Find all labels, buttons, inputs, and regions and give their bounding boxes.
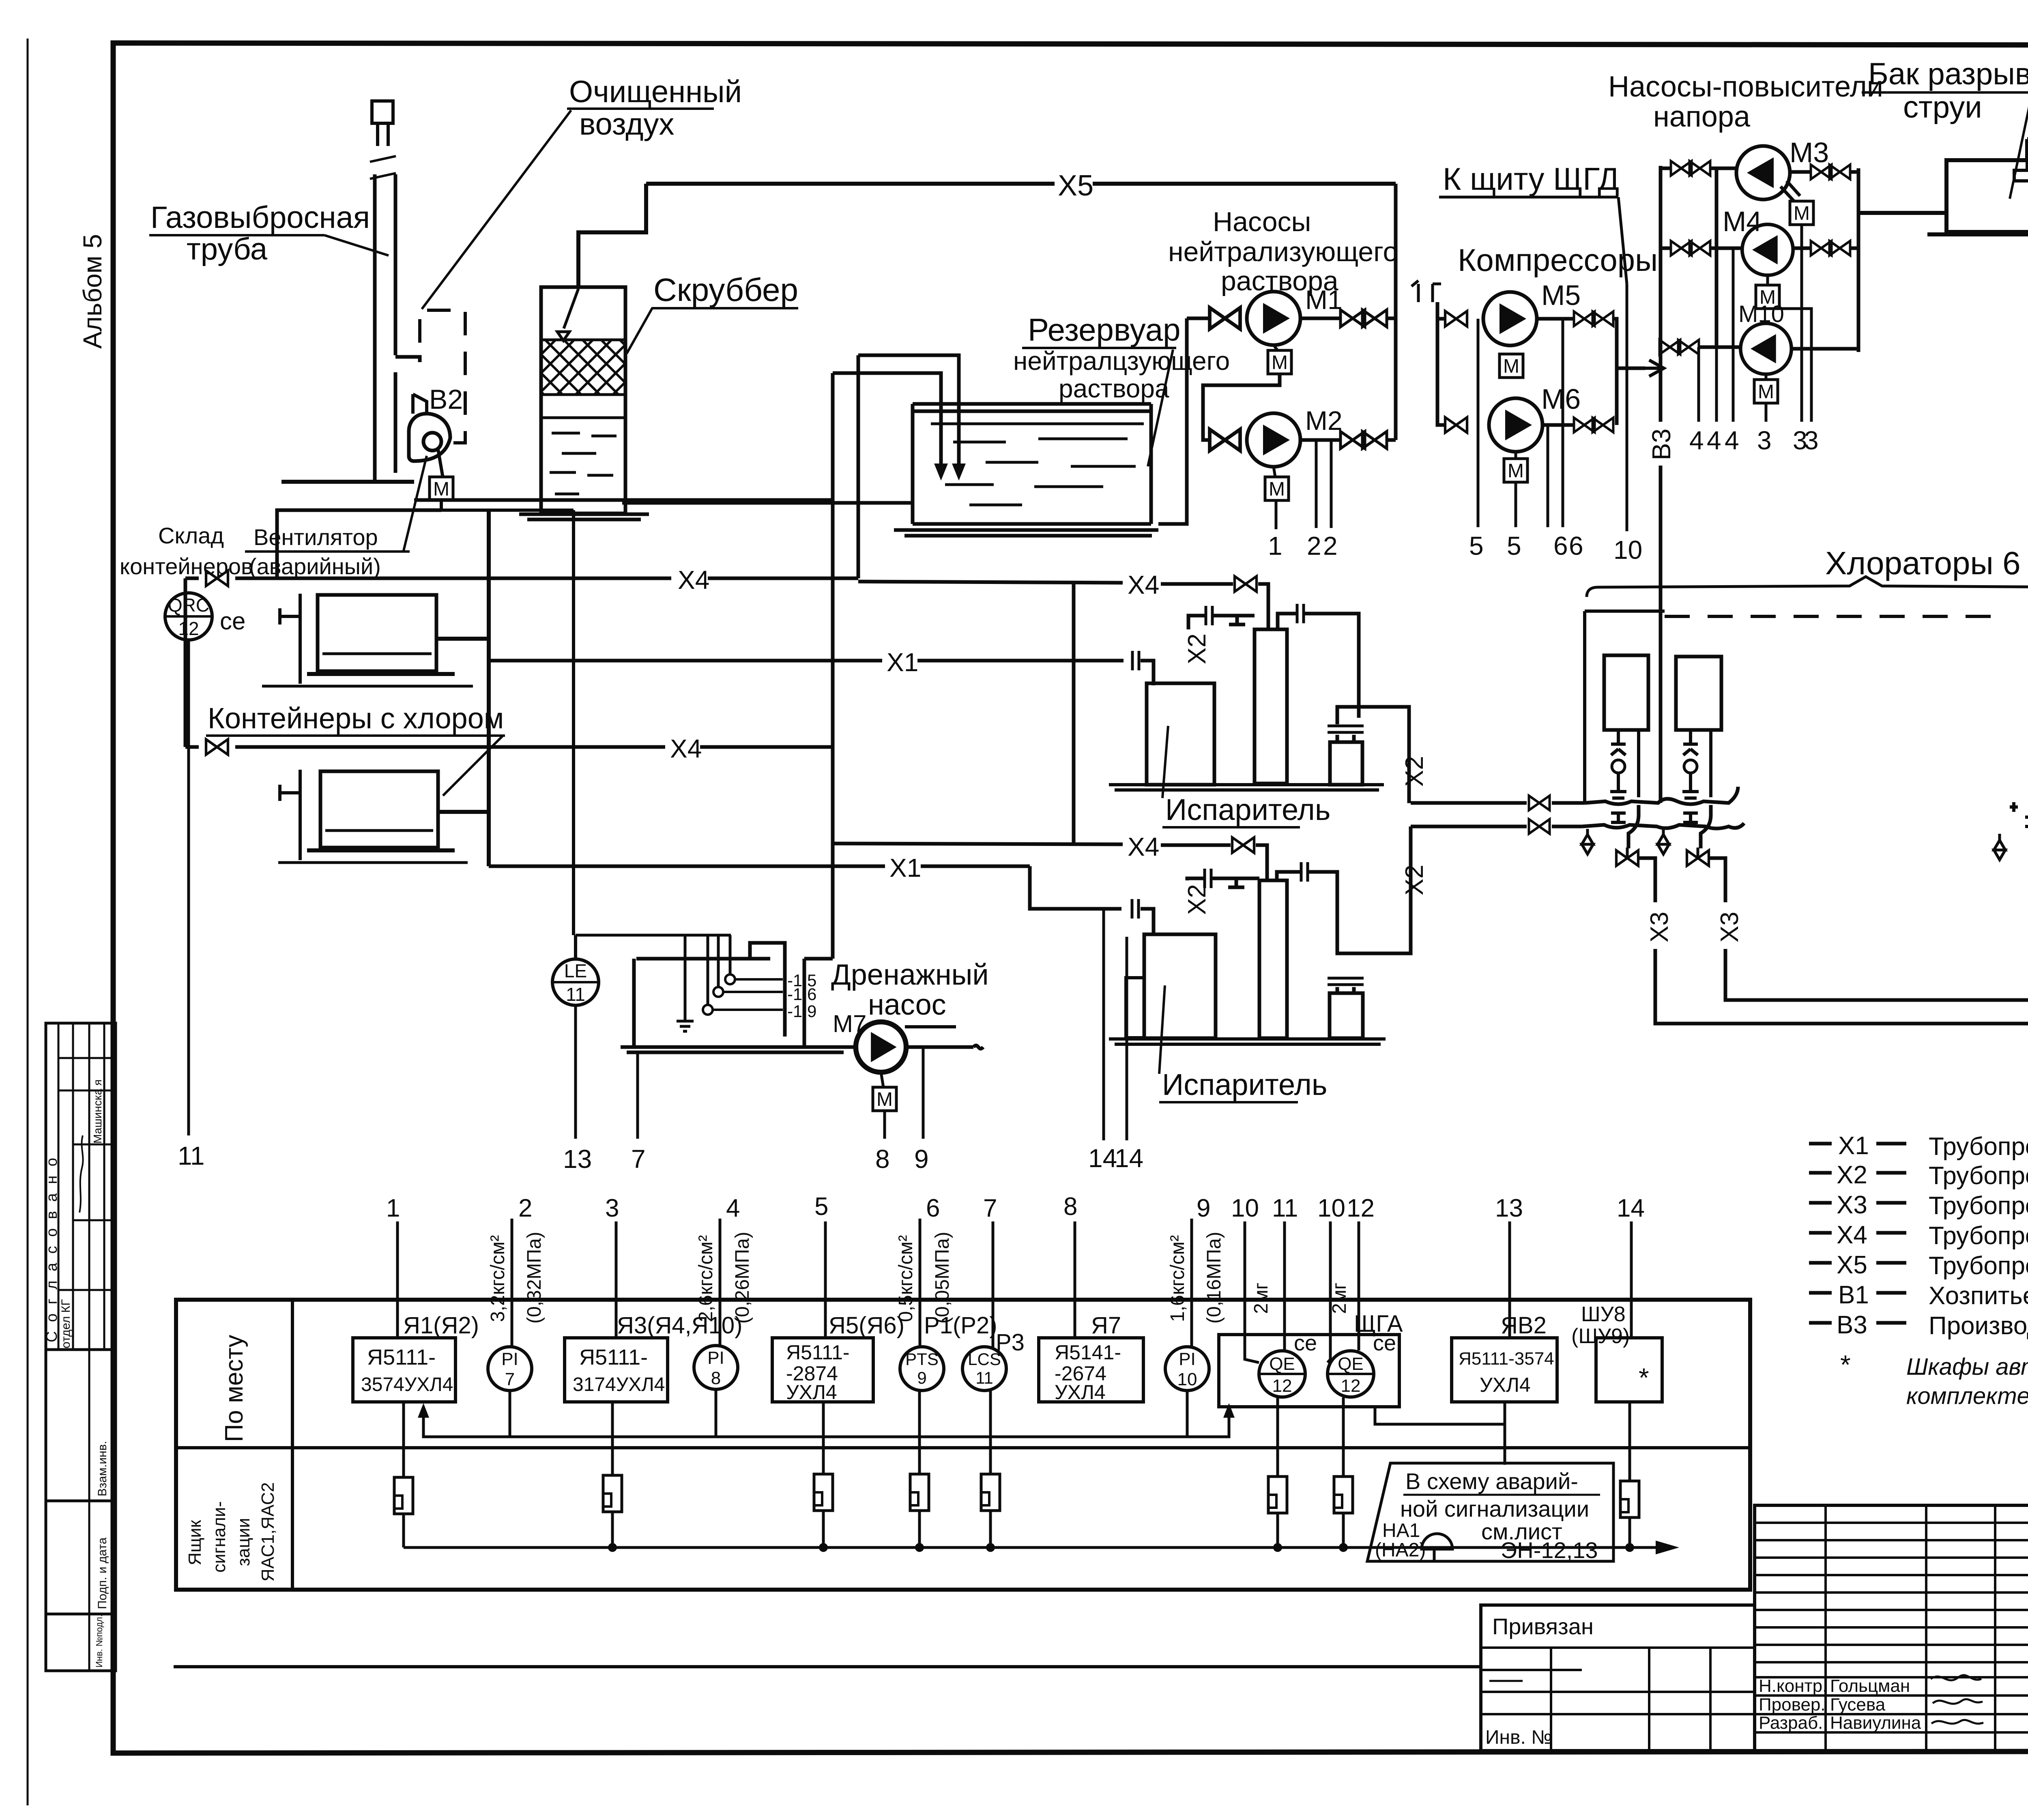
svg-text:М5: М5 xyxy=(1541,279,1581,311)
svg-text:2мг: 2мг xyxy=(1250,1283,1272,1314)
pipe X2 riser 2 xyxy=(1406,826,1411,953)
svg-text:Инв. №: Инв. № xyxy=(1485,1727,1552,1748)
pipe sump to pump M7 xyxy=(804,1045,856,1049)
pump M3 xyxy=(1736,146,1790,200)
svg-text:Х5: Х5 xyxy=(1837,1251,1867,1279)
label: scrubber xyxy=(627,272,798,354)
pipe B3 production water line xyxy=(1647,166,1676,803)
label: containers with chlorine xyxy=(206,702,505,796)
svg-text:труба: труба xyxy=(187,232,268,266)
privyazan box xyxy=(1481,1605,1755,1751)
svg-text:10: 10 xyxy=(1317,1194,1345,1222)
cabinet box ShU8 xyxy=(1596,1338,1662,1402)
evaporator 2 column xyxy=(1259,880,1287,1038)
wire M2 motor to 1 xyxy=(1275,500,1278,529)
label: booster pumps xyxy=(1608,71,1883,133)
svg-text:Провер.: Провер. xyxy=(1759,1695,1826,1715)
pipe into evap2 column xyxy=(1256,845,1267,880)
section line under strip xyxy=(174,1665,1481,1668)
analyser QE12 second xyxy=(1328,1351,1374,1397)
svg-text:8: 8 xyxy=(1063,1193,1077,1221)
pipe container 1 outlet xyxy=(436,637,489,641)
legend xyxy=(1809,1132,2028,1340)
sheet edge line xyxy=(27,39,29,1805)
svg-text:комплекте с испарителями.: комплекте с испарителями. xyxy=(1906,1383,2028,1409)
ground under container 2 xyxy=(278,861,468,864)
wire M10 motor to 3 xyxy=(1765,403,1768,422)
vent valve 2 xyxy=(1658,829,1669,854)
svg-text:Разраб.: Разраб. xyxy=(1759,1713,1823,1733)
pipe scrubber inlet from X5 xyxy=(578,184,646,287)
pipe X1 upper into evaporator xyxy=(1141,661,1154,685)
motor M4 xyxy=(1756,285,1779,309)
svg-text:Машинска я: Машинска я xyxy=(91,1080,104,1144)
container 2 base xyxy=(307,848,455,852)
svg-text:12: 12 xyxy=(1272,1376,1292,1396)
pipe X4 drop to sump xyxy=(831,747,835,959)
wires gauges to feedback xyxy=(510,1389,1187,1437)
wire drop 12 xyxy=(1358,1221,1360,1350)
svg-text:2,6кгс/см²: 2,6кгс/см² xyxy=(695,1235,717,1322)
svg-text:LE: LE xyxy=(564,960,587,981)
pipe M6 discharge xyxy=(1542,423,1574,427)
pipe evap1 gas top xyxy=(1188,616,1255,629)
wire relay2 to bus xyxy=(611,1512,614,1547)
svg-text:М2: М2 xyxy=(1305,406,1343,436)
valve X4 evap2 xyxy=(1232,837,1254,853)
chlorinator 1 internals xyxy=(1610,730,1639,798)
pipe M5 discharge xyxy=(1537,317,1574,321)
svg-text:нейтралцзующего: нейтралцзующего xyxy=(1013,346,1230,376)
svg-text:Х1: Х1 xyxy=(1838,1132,1869,1160)
valve M5 suction xyxy=(1445,311,1467,326)
valves M5 discharge xyxy=(1574,311,1613,326)
svg-text:1,6кгс/см²: 1,6кгс/см² xyxy=(1167,1235,1188,1322)
wire drop 1 xyxy=(396,1221,399,1338)
svg-text:11: 11 xyxy=(975,1368,993,1387)
tank bak razryva strui xyxy=(1946,160,2028,232)
left margin stamp bottom xyxy=(46,1614,116,1671)
alarm bell symbol xyxy=(1422,1534,1452,1561)
pump M10 xyxy=(1740,323,1791,374)
stem M10 motor xyxy=(1765,374,1768,380)
chlorine container 2 xyxy=(320,771,438,848)
fan motor M xyxy=(430,477,453,500)
unions small vessel 2 xyxy=(1328,978,1347,985)
pump M2 xyxy=(1247,413,1300,467)
wire SHCHGD to 10 xyxy=(1626,284,1628,531)
svg-text:Х4: Х4 xyxy=(670,734,702,763)
svg-text:2: 2 xyxy=(1323,531,1338,560)
svg-text:(0,32МПа): (0,32МПа) xyxy=(524,1232,545,1324)
svg-text:Хозпитьевой водопровод: Хозпитьевой водопровод xyxy=(1929,1282,2028,1310)
svg-text:4: 4 xyxy=(726,1194,740,1222)
svg-text:1: 1 xyxy=(386,1194,400,1222)
svg-text:УХЛ4: УХЛ4 xyxy=(1480,1374,1531,1396)
wire M1 motor to M2 suction xyxy=(1203,374,1280,440)
valve M2 suction xyxy=(1210,429,1240,451)
wire drop 11 xyxy=(1283,1221,1286,1350)
wire LCS11 to relay xyxy=(989,1391,992,1474)
evaporator 2 annex xyxy=(1126,978,1144,1038)
svg-text:Альбом 5: Альбом 5 xyxy=(78,234,107,349)
relay 2 xyxy=(603,1475,622,1512)
pipe M1 suction from tank xyxy=(1158,318,1208,524)
svg-text:Насосы: Насосы xyxy=(1213,206,1311,237)
stem M6 motor xyxy=(1515,452,1517,459)
drainage sump walls xyxy=(634,943,833,1046)
svg-text:Р1(Р2): Р1(Р2) xyxy=(924,1312,997,1339)
svg-text:14: 14 xyxy=(1088,1144,1117,1173)
valve feed 1 xyxy=(1529,796,1550,810)
svg-text:воздух: воздух xyxy=(579,107,674,142)
pipe M1 discharge xyxy=(1300,317,1342,320)
svg-text:Навиулина: Навиулина xyxy=(1830,1713,1921,1733)
wire drop 9 with pressure xyxy=(1167,1194,1225,1347)
labels 3 3 3 xyxy=(1757,426,1819,455)
svg-text:зации: зации xyxy=(234,1518,253,1566)
pipe discharge header M1 M2 xyxy=(1394,184,1398,440)
signal bus xyxy=(404,1541,1679,1554)
wire sump switch to 7 xyxy=(636,1053,639,1139)
valve M6 suction xyxy=(1445,417,1467,433)
reservoir tank xyxy=(913,404,1151,524)
svg-text:контейнеров: контейнеров xyxy=(120,554,253,579)
svg-text:Подп. и дата: Подп. и дата xyxy=(96,1537,109,1609)
diagonal drop chlorinator 1 xyxy=(1628,805,1639,848)
svg-text:11: 11 xyxy=(178,1141,204,1170)
svg-text:напора: напора xyxy=(1653,101,1751,133)
wire PTS9 to relay xyxy=(918,1391,921,1474)
svg-text:НА1: НА1 xyxy=(1382,1520,1420,1541)
svg-text:УХЛ4: УХЛ4 xyxy=(1055,1381,1106,1404)
left margin stamp middle xyxy=(46,1350,116,1501)
scrubber base ground xyxy=(519,514,649,519)
svg-text:Х4: Х4 xyxy=(1128,570,1159,599)
svg-text:М4: М4 xyxy=(1723,206,1762,237)
label: evaporator 1 xyxy=(1162,726,1330,827)
analyser QE12 first xyxy=(1259,1351,1305,1397)
brace chlorinators xyxy=(1587,577,2028,597)
svg-text:13: 13 xyxy=(1495,1194,1523,1222)
pipe X4 feed evaporator 1 xyxy=(858,570,1233,599)
label: to panel SHCHGD xyxy=(1439,161,1627,284)
svg-text:Трубопровод жидкого хлора: Трубопровод жидкого хлора xyxy=(1929,1133,2028,1161)
instrument box Ya1 xyxy=(353,1338,455,1402)
pipe compressed air out with arrow xyxy=(1617,360,1664,376)
wire drop 5 xyxy=(824,1221,827,1338)
svg-text:С о г л а с о в а н о: С о г л а с о в а н о xyxy=(43,1155,60,1342)
pipe X5 main line xyxy=(646,170,1396,202)
pipe X4 left riser xyxy=(184,578,187,747)
pipe risers from fan drain to X4 lines xyxy=(833,355,858,747)
svg-text:Гусева: Гусева xyxy=(1830,1695,1886,1715)
vent valve 3 xyxy=(1994,834,2005,860)
svg-text:*: * xyxy=(1639,1363,1649,1393)
svg-text:Х3: Х3 xyxy=(1646,912,1674,942)
pipe X1 lower into evap2 xyxy=(1141,909,1154,933)
valves M1 discharge xyxy=(1341,310,1387,327)
instrument box YaV2 xyxy=(1452,1338,1557,1402)
pipe X4 upper left xyxy=(185,565,858,595)
wire drop 10b xyxy=(1328,1221,1330,1363)
wire box14 to relay xyxy=(1628,1402,1631,1481)
label: reservoir of neutralizing solution xyxy=(1013,312,1230,466)
motor M10 xyxy=(1754,380,1778,403)
svg-text:Трубопровод газообразного хл: Трубопровод газообразного хлора xyxy=(1929,1162,2028,1190)
svg-text:Х2: Х2 xyxy=(1401,865,1429,895)
svg-text:1: 1 xyxy=(1268,531,1283,560)
label: container storage xyxy=(120,523,253,579)
wire M4 motor jog to 3 xyxy=(1779,309,1811,422)
svg-text:9: 9 xyxy=(917,1368,926,1387)
valve M1 suction xyxy=(1210,308,1240,329)
pipe feed line 2 manifold xyxy=(1582,823,1744,828)
svg-text:В3: В3 xyxy=(1647,429,1676,460)
wire relay7 to bus xyxy=(1342,1513,1345,1547)
pipe M7 discharge xyxy=(906,1045,983,1049)
svg-text:QRC: QRC xyxy=(168,595,209,616)
svg-text:4: 4 xyxy=(1725,426,1739,455)
tag ShU8 ShU9 xyxy=(1571,1303,1630,1348)
wire drop 4 with pressure xyxy=(695,1194,753,1346)
label: evaporator 2 xyxy=(1159,985,1327,1102)
feedback line to boxes xyxy=(418,1403,1235,1437)
svg-text:насос: насос xyxy=(868,989,946,1021)
relay 6 xyxy=(1268,1477,1287,1513)
gauge PI10 xyxy=(1165,1347,1209,1391)
wires suction drains 4 4 4 xyxy=(1699,248,1733,422)
valve X4 evap1 xyxy=(1235,576,1257,592)
svg-text:2мг: 2мг xyxy=(1329,1283,1350,1314)
pipe M2 valves to header xyxy=(1387,438,1396,442)
svg-text:Испаритель: Испаритель xyxy=(1165,793,1330,826)
union evap2 top right xyxy=(1301,862,1308,882)
svg-text:14: 14 xyxy=(1617,1194,1645,1222)
svg-text:7: 7 xyxy=(505,1369,515,1389)
wire box5 to relay xyxy=(822,1402,825,1474)
stem M1 motor xyxy=(1274,345,1278,350)
svg-text:12: 12 xyxy=(178,618,199,639)
svg-text:Р3: Р3 xyxy=(996,1329,1025,1356)
motor M1 xyxy=(1268,350,1291,374)
wire QE2 to relay xyxy=(1342,1397,1345,1477)
svg-text:14: 14 xyxy=(1115,1144,1143,1173)
wire drop 14 xyxy=(1630,1221,1633,1338)
svg-text:Я5141-: Я5141- xyxy=(1055,1341,1121,1364)
wire relay3 to bus xyxy=(822,1511,825,1547)
relay 8 xyxy=(1620,1481,1639,1517)
union evap1 top left xyxy=(1206,606,1212,625)
valves M4 suction xyxy=(1671,241,1710,255)
wire LE11 to 13 xyxy=(574,1005,577,1139)
valve feed 2 xyxy=(1529,819,1550,834)
control valve 1 xyxy=(1616,848,1638,866)
compressor suction vents xyxy=(1411,281,1441,302)
wires to labels 2 2 xyxy=(1316,440,1331,528)
svg-text:13: 13 xyxy=(563,1144,592,1174)
pipe containers riser xyxy=(487,510,491,866)
svg-text:Компрессоры: Компрессоры xyxy=(1458,242,1658,278)
tank base xyxy=(1927,232,2028,236)
label: drainage pump xyxy=(831,959,989,1021)
svg-text:М1: М1 xyxy=(1305,285,1343,315)
dashed air duct fan to chimney xyxy=(420,310,465,443)
pipe chlorine feed line 1 xyxy=(1411,801,1585,805)
pipe M3 suction xyxy=(1661,167,1737,170)
svg-text:3: 3 xyxy=(1804,426,1819,455)
valves M3 suction xyxy=(1671,161,1710,176)
pipe chlorine feed line 2 xyxy=(1411,825,1582,828)
pipe M4 discharge xyxy=(1793,247,1858,250)
compressor M5 xyxy=(1483,292,1537,346)
connector I marks feed1 xyxy=(1611,813,1698,822)
wire relay4 to bus xyxy=(918,1511,921,1547)
pipe riser to X4 upper xyxy=(277,510,441,578)
discharge level mark xyxy=(905,1025,956,1028)
wire drop 13 xyxy=(1508,1221,1511,1338)
svg-text:Очищенный: Очищенный xyxy=(569,75,742,109)
stem M2 motor xyxy=(1274,467,1275,477)
svg-text:Шкафы автоматики поставляютс: Шкафы автоматики поставляются в xyxy=(1906,1354,2028,1380)
chlorinator 2 body xyxy=(1676,657,1721,730)
wire M6 drain to 6 xyxy=(1547,425,1549,527)
left margin stamp upper xyxy=(43,1023,116,1350)
svg-text:Я7: Я7 xyxy=(1091,1312,1121,1339)
svg-text:9: 9 xyxy=(914,1144,929,1174)
container bracket 2 xyxy=(280,770,300,860)
svg-text:раствора: раствора xyxy=(1059,374,1169,403)
svg-text:10: 10 xyxy=(1231,1194,1259,1222)
vent valve 1 xyxy=(1582,829,1593,854)
pipe evap2 gas right xyxy=(1277,872,1406,953)
pipe fan drain line xyxy=(414,498,833,502)
switch LCS11 xyxy=(962,1347,1006,1391)
svg-text:М10: М10 xyxy=(1738,301,1784,327)
svg-text:Я5111-3574: Я5111-3574 xyxy=(1459,1349,1554,1369)
label: neutralizing solution pumps xyxy=(1168,206,1398,296)
svg-text:се: се xyxy=(220,607,245,635)
svg-text:6: 6 xyxy=(1569,531,1583,560)
evaporator 1 column xyxy=(1255,629,1287,783)
electrode level links xyxy=(713,979,783,1010)
wire drop 8 xyxy=(1074,1221,1076,1338)
gas analyser QRC12 storage xyxy=(165,593,212,640)
svg-text:Привязан: Привязан xyxy=(1492,1614,1594,1639)
wire relay8 to bus xyxy=(1628,1517,1631,1547)
svg-text:Склад: Склад xyxy=(158,523,224,548)
pipe into evap1 column xyxy=(1258,584,1268,629)
wire drop 7 xyxy=(992,1221,995,1347)
svg-text:Резервуар: Резервуар xyxy=(1028,312,1181,348)
svg-text:М3: М3 xyxy=(1790,137,1829,168)
float valve in tank xyxy=(2014,160,2028,181)
box SHCHGA xyxy=(1219,1335,1399,1407)
scrubber spray nozzle xyxy=(557,289,578,341)
svg-text:9: 9 xyxy=(1197,1194,1210,1222)
relay 7 xyxy=(1334,1477,1353,1513)
label: purified air xyxy=(422,75,742,309)
left margin stamp lower xyxy=(46,1501,116,1614)
svg-text:нейтрализующего: нейтрализующего xyxy=(1168,236,1398,267)
link M3 motor xyxy=(1781,181,1800,202)
valves M3 discharge xyxy=(1811,165,1850,179)
container 1 base xyxy=(307,672,455,676)
alarm callout xyxy=(1367,1463,1613,1563)
row label: yashchik signalizacii xyxy=(185,1482,278,1582)
evaporator 1 small vessel xyxy=(1330,742,1362,785)
svg-text:Я5111-: Я5111- xyxy=(367,1345,436,1369)
svg-text:Испаритель: Испаритель xyxy=(1162,1068,1327,1101)
label: gas exhaust stack xyxy=(149,200,389,266)
title block narrow grid xyxy=(1755,1505,2028,1751)
svg-text:В2: В2 xyxy=(429,384,463,415)
wire M3 motor to 3 xyxy=(1800,225,1803,422)
instrument strip table xyxy=(176,1300,1750,1590)
instrument box Ya3 xyxy=(565,1338,668,1402)
svg-text:К щиту ЩГД: К щиту ЩГД xyxy=(1443,161,1619,197)
pipe M10 suction xyxy=(1660,346,1740,349)
svg-text:УХЛ4: УХЛ4 xyxy=(786,1381,837,1404)
svg-text:6: 6 xyxy=(1553,531,1568,560)
svg-text:Х4: Х4 xyxy=(1128,832,1159,861)
container bracket 1 xyxy=(280,594,300,684)
drainage pump M7 xyxy=(856,1022,906,1072)
svg-text:Дренажный: Дренажный xyxy=(831,959,989,991)
wires evap to 14 14 xyxy=(1104,909,1127,1140)
svg-text:отдел КГ: отдел КГ xyxy=(59,1299,73,1348)
relay 1 xyxy=(394,1477,413,1514)
wire from fan motor down xyxy=(441,500,574,510)
wire box3 to relay xyxy=(611,1402,614,1475)
title block signatures xyxy=(1759,1675,1983,1733)
svg-text:В1: В1 xyxy=(1838,1281,1869,1309)
svg-text:струи: струи xyxy=(1903,90,1982,124)
svg-text:Ящик: Ящик xyxy=(185,1520,205,1565)
svg-text:(0,26МПа): (0,26МПа) xyxy=(732,1232,753,1324)
svg-text:2: 2 xyxy=(518,1194,532,1222)
stem M7 motor xyxy=(881,1072,883,1087)
svg-text:Трубопровод хлорной воды: Трубопровод хлорной воды xyxy=(1929,1192,2028,1220)
evap2 ground xyxy=(1109,1039,1386,1044)
ground line under chimney xyxy=(281,480,414,484)
wire drop 3 xyxy=(615,1221,618,1338)
switch PTS9 xyxy=(900,1347,944,1391)
valve X4 lower xyxy=(206,739,228,755)
wire box13 down xyxy=(1504,1402,1506,1465)
union X1 lower xyxy=(1132,899,1139,919)
wire drop 2 with pressure xyxy=(487,1194,545,1347)
pipe evap2 gas top xyxy=(1187,878,1259,887)
svg-text:8: 8 xyxy=(875,1144,890,1174)
svg-text:5: 5 xyxy=(1469,531,1484,560)
pipe booster discharge header xyxy=(1857,168,1860,352)
wire relay6 to bus xyxy=(1276,1513,1279,1547)
svg-text:Трубопровод продуктов продув: Трубопровод продуктов продувки xyxy=(1929,1222,2028,1250)
wire relay1 to bus xyxy=(402,1514,405,1547)
ground under container 1 xyxy=(262,685,473,688)
pipe M4 suction xyxy=(1661,247,1742,250)
svg-text:2: 2 xyxy=(1307,531,1321,560)
svg-text:PI: PI xyxy=(707,1348,724,1368)
svg-text:0,5кгс/см²: 0,5кгс/см² xyxy=(895,1235,917,1322)
connector I marks chl3 xyxy=(2010,802,2028,826)
pipe X3 drop 1 xyxy=(1639,858,2028,1024)
chlorinator 1 body xyxy=(1604,655,1648,730)
sump ground xyxy=(621,1047,850,1052)
wire QE1 to relay xyxy=(1276,1397,1279,1477)
svg-text:Х1: Х1 xyxy=(887,648,918,677)
